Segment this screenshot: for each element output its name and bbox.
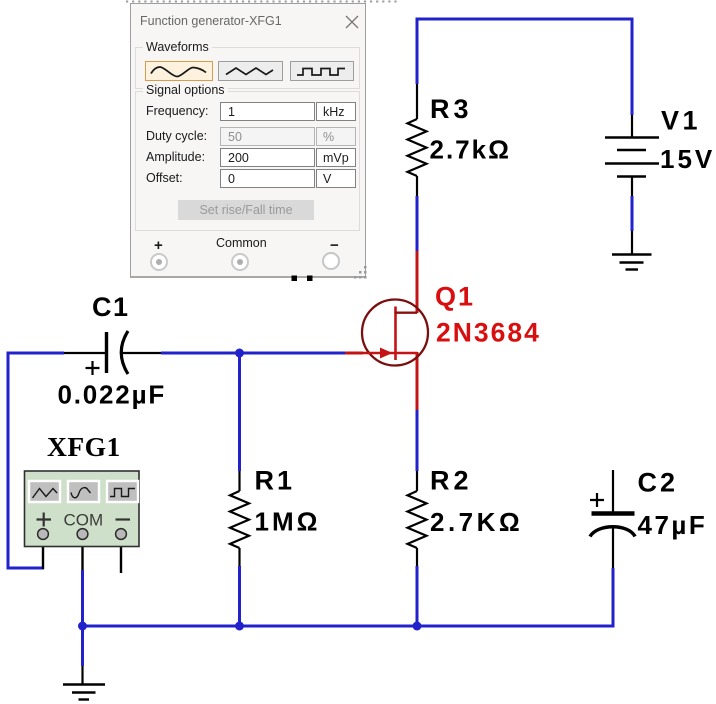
- resistor R1: [230, 491, 249, 548]
- label C2 reference: [638, 468, 679, 498]
- svg-text:2.7kΩ: 2.7kΩ: [430, 135, 511, 165]
- label C1 value 0.022uF: [58, 380, 167, 410]
- svg-text:V1: V1: [661, 106, 701, 136]
- svg-text:2N3684: 2N3684: [436, 318, 541, 348]
- terminal minus jack: [322, 252, 340, 270]
- label V1 reference: [661, 106, 701, 136]
- wire R2 bottom pin (black): [416, 548, 418, 566]
- dialog resize grip: [353, 264, 369, 280]
- svg-text:Q1: Q1: [435, 282, 475, 312]
- ground (below V1): [612, 231, 652, 270]
- transistor Q1 (JFET): [361, 300, 428, 366]
- capacitor C1: [107, 331, 129, 374]
- signal options group box: [135, 91, 360, 231]
- label R3 reference: [430, 94, 473, 124]
- wire R3 bottom pin (black): [416, 176, 418, 196]
- label Q1 part number 2N3684 (red): [436, 318, 541, 348]
- svg-text:COM: COM: [64, 511, 104, 530]
- svg-text:47µF: 47µF: [638, 510, 708, 540]
- wire XFG1 COM pin (black): [81, 540, 83, 570]
- waveform button square: [290, 61, 354, 81]
- label Q1 reference (red): [435, 282, 475, 312]
- wire left drop to XFG1 + (blue): [7, 352, 45, 569]
- terminal plus label: [154, 237, 163, 254]
- wire R3 top (blue): [416, 18, 419, 85]
- set rise/fall time button (disabled): [178, 200, 314, 220]
- wire R1 bottom pin (black): [238, 548, 240, 566]
- wire R2 top (blue): [416, 410, 419, 471]
- page boundary dashed gridline top: [126, 1, 398, 3]
- C2 plus polarity mark: [590, 493, 604, 507]
- svg-text:2.7KΩ: 2.7KΩ: [430, 507, 523, 537]
- wire V1 top (blue): [631, 18, 634, 116]
- resistor R3: [408, 119, 427, 176]
- wire V1 bottom pin (black): [631, 177, 633, 197]
- dialog close X: [345, 15, 359, 29]
- label R3 value 2.7k ohm: [430, 135, 511, 165]
- node bottom bus junction at COM: [78, 622, 87, 631]
- wire top bus (drain supply to V1): [417, 18, 632, 21]
- terminal common jack: [231, 253, 249, 271]
- wire R2 bottom (blue): [416, 566, 419, 626]
- capacitor C2: [590, 514, 635, 537]
- wire COM to bottom bus (blue): [81, 570, 84, 666]
- waveforms group box: [135, 47, 360, 89]
- svg-text:XFG1: XFG1: [47, 431, 121, 462]
- XFG1 COM terminal label: [64, 511, 104, 530]
- label R2 value 2.7K ohm: [430, 507, 523, 537]
- wire C1 to gate node (blue): [161, 352, 345, 355]
- label XFG1 reference: [47, 431, 121, 462]
- amplitude row: [146, 150, 205, 164]
- instrument XFG1 (function generator icon): [25, 471, 140, 547]
- wire input net to C1 (blue): [8, 352, 64, 355]
- label R2 reference: [430, 466, 473, 496]
- wire bottom ground bus (blue): [83, 625, 614, 628]
- wire R1 top (blue): [238, 353, 241, 471]
- label C1 reference: [92, 292, 130, 322]
- svg-text:R3: R3: [430, 94, 473, 124]
- C1 plus polarity mark: [86, 361, 100, 375]
- svg-text:C1: C1: [92, 292, 130, 322]
- svg-text:C2: C2: [638, 468, 679, 498]
- node gate branch junction: [235, 349, 244, 358]
- wire R1 bottom (blue): [238, 566, 241, 626]
- wire C1 left pin (black): [64, 352, 105, 354]
- wire XFG1 minus pin stub (black): [120, 540, 122, 573]
- svg-text:15V: 15V: [660, 144, 715, 174]
- label C2 value 47uF: [638, 510, 708, 540]
- label V1 value 15V: [660, 144, 715, 174]
- svg-text:0.022µF: 0.022µF: [58, 380, 167, 410]
- svg-text:1MΩ: 1MΩ: [255, 507, 321, 537]
- svg-text:R2: R2: [430, 466, 473, 496]
- wire Q1 source net (red): [416, 352, 419, 410]
- wire C1 right pin (black): [121, 352, 161, 354]
- wire gate net (red): [345, 352, 363, 355]
- node bottom bus junction at R1: [235, 622, 244, 631]
- ground (bottom left): [63, 666, 105, 700]
- wire R2 top pin (black): [416, 471, 418, 491]
- resistor R2: [408, 491, 427, 548]
- wire V1 to ground (blue): [631, 196, 634, 231]
- wire R3 bottom (blue): [416, 196, 419, 251]
- svg-text:R1: R1: [255, 466, 296, 496]
- wire V1 top pin (black): [631, 115, 633, 137]
- function generator dialog XFG1: [130, 3, 366, 278]
- node bottom bus junction at R2: [413, 622, 422, 631]
- wire XFG1 plus pin (black): [42, 540, 44, 569]
- wire C2 top pin (black): [612, 470, 614, 513]
- duty cycle row (disabled): [146, 129, 207, 143]
- wire Q1 drain net (red): [416, 251, 419, 313]
- waveform button sine (selected): [145, 61, 213, 81]
- waveform button triangle: [218, 61, 283, 81]
- wire R3 top pin (black): [416, 84, 418, 119]
- terminal plus jack: [150, 253, 168, 271]
- dialog title: [140, 14, 282, 28]
- frequency row: [146, 104, 209, 118]
- label R1 value 1M ohm: [255, 507, 321, 537]
- wire C2 riser (blue): [612, 568, 615, 628]
- label R1 reference: [255, 466, 296, 496]
- wire R1 top pin (black): [238, 471, 240, 491]
- wire C2 bottom pin (black): [612, 528, 614, 568]
- offset row: [146, 171, 183, 185]
- terminal common label: [216, 236, 267, 250]
- battery V1: [605, 138, 659, 177]
- terminal minus label: [330, 237, 339, 254]
